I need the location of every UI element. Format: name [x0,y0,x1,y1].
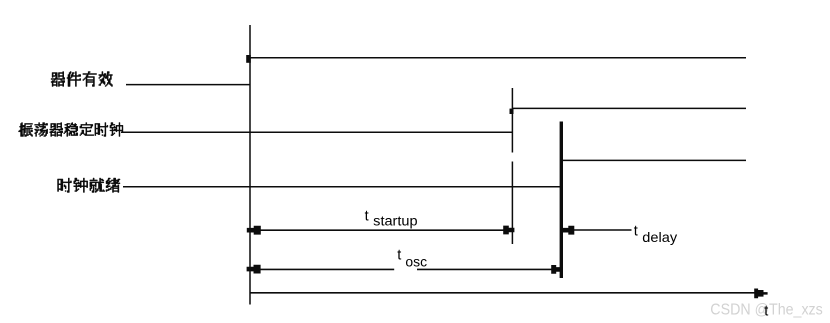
svg-text:t: t [397,248,401,264]
svg-text:osc: osc [405,254,427,270]
node tick at oscillator-stable rising edge [510,109,514,114]
node edge1: device-valid transition vertical reference line [249,25,251,305]
svg-text:delay: delay [642,229,677,245]
wire: 时钟就绪 low level line [123,186,561,188]
node edge2: oscillator-stable transition vertical reference line (upper segment) [511,88,513,153]
label: signal name 振荡器稳定时钟 [18,123,122,137]
wire: 器件有效 label leader line (low level) [126,84,250,86]
dimension arrow t_startup line [256,229,506,231]
wire: 振荡器稳定时钟 low level line [121,131,512,133]
dimension arrow t_osc line right segment [417,268,554,270]
wire: 器件有效 high level line [250,57,746,59]
label: signal name 时钟就绪 [58,178,121,193]
dimension arrow t_startup left head [247,226,261,235]
svg-text:t: t [634,223,638,239]
svg-text:t: t [365,209,369,225]
wire: 时钟就绪 high level line [561,159,746,161]
node tick at device-valid rising edge [246,55,251,63]
wire: 振荡器稳定时钟 high level line [512,107,746,109]
node edge2: oscillator-stable transition vertical reference line (lower segment) [511,162,513,245]
dimension arrow t_delay line [570,229,632,231]
dimension arrow t_startup right head [503,226,514,235]
node edge3: clock-ready transition thick vertical reference line [560,122,563,279]
dimension arrow t_delay left head [562,226,575,235]
svg-text:t: t [764,303,768,319]
svg-text:startup: startup [373,213,417,228]
wire: time axis [250,292,756,294]
dimension arrow t_osc line left segment [256,268,394,270]
label: signal name 器件有效 [51,72,112,87]
dimension arrow t_osc left head [247,265,261,274]
dimension arrow t_osc right head [551,265,561,274]
dimension arrow time axis head [754,289,767,299]
